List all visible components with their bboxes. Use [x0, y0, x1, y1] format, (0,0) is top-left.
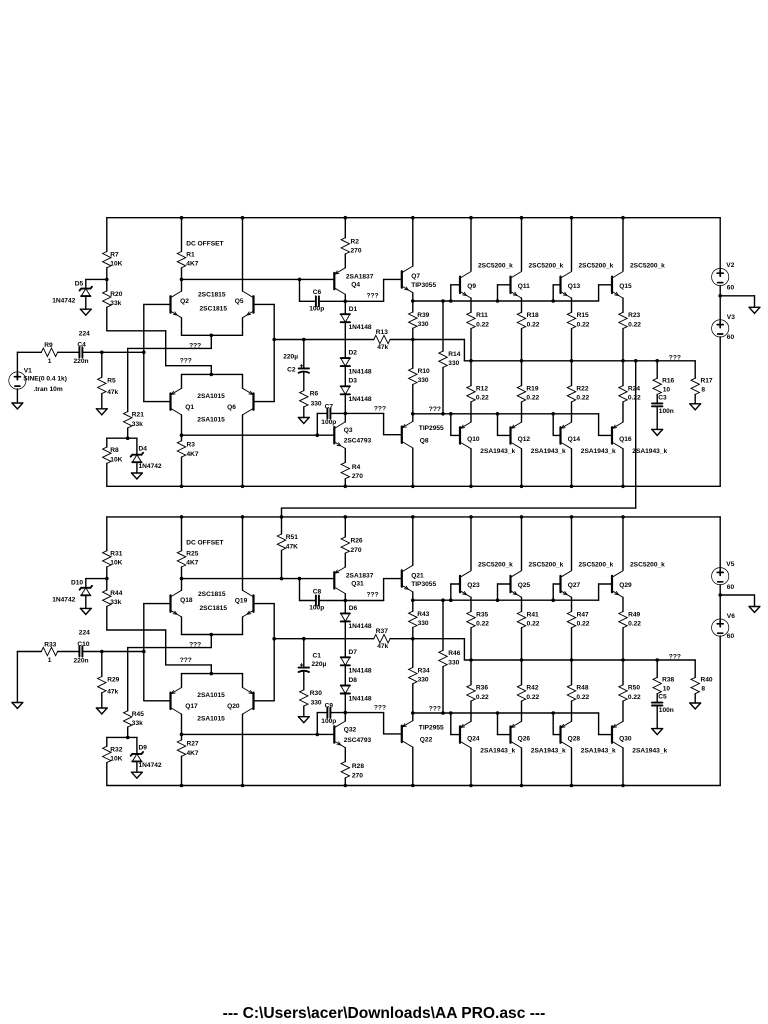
svg-text:D10: D10	[71, 580, 83, 587]
svg-text:2SC5200_k: 2SC5200_k	[478, 263, 513, 270]
svg-text:Q16: Q16	[619, 436, 632, 443]
svg-text:60: 60	[727, 285, 735, 292]
svg-text:2SA1943_k: 2SA1943_k	[632, 747, 667, 754]
svg-text:R9: R9	[44, 342, 53, 349]
svg-text:0.22: 0.22	[576, 694, 589, 701]
svg-text:D8: D8	[349, 677, 358, 684]
svg-text:100p: 100p	[321, 419, 336, 426]
svg-text:R38: R38	[662, 677, 674, 684]
svg-text:C10: C10	[77, 641, 89, 648]
svg-text:2SC5200_k: 2SC5200_k	[478, 562, 513, 569]
svg-text:2SC5200_k: 2SC5200_k	[579, 562, 614, 569]
svg-text:2SC1815: 2SC1815	[200, 306, 228, 313]
svg-text:2SA1943_k: 2SA1943_k	[581, 448, 616, 455]
svg-text:V5: V5	[726, 561, 734, 568]
svg-text:V3: V3	[727, 314, 735, 321]
svg-text:C4: C4	[77, 342, 86, 349]
svg-text:270: 270	[352, 772, 363, 779]
svg-text:Q26: Q26	[518, 735, 531, 742]
svg-text:C3: C3	[658, 394, 667, 401]
svg-text:SINE(0 0.4 1k): SINE(0 0.4 1k)	[23, 376, 67, 383]
svg-text:0.22: 0.22	[628, 321, 641, 328]
svg-text:330: 330	[448, 659, 459, 666]
svg-text:Q2: Q2	[180, 298, 189, 305]
svg-text:R29: R29	[107, 677, 119, 684]
svg-text:R32: R32	[110, 746, 122, 753]
svg-text:V6: V6	[727, 613, 735, 620]
svg-text:???: ???	[180, 358, 192, 365]
svg-text:TIP2955: TIP2955	[419, 724, 444, 731]
svg-text:4K7: 4K7	[186, 261, 198, 268]
svg-text:0.22: 0.22	[476, 694, 489, 701]
svg-text:R2: R2	[351, 239, 360, 246]
svg-text:Q4: Q4	[351, 281, 360, 288]
svg-text:2SC5200_k: 2SC5200_k	[579, 263, 614, 270]
svg-text:2SA1943_k: 2SA1943_k	[480, 747, 515, 754]
svg-text:R24: R24	[628, 385, 640, 392]
svg-text:???: ???	[669, 354, 681, 361]
svg-text:2SC5200_k: 2SC5200_k	[529, 562, 564, 569]
svg-text:0.22: 0.22	[577, 621, 590, 628]
svg-text:220n: 220n	[74, 657, 89, 664]
svg-text:220µ: 220µ	[283, 354, 298, 361]
svg-text:1N4742: 1N4742	[139, 463, 162, 470]
svg-text:Q9: Q9	[467, 283, 476, 290]
svg-text:Q29: Q29	[619, 582, 632, 589]
svg-text:???: ???	[367, 293, 379, 300]
svg-text:D2: D2	[349, 350, 358, 357]
svg-text:R7: R7	[110, 252, 119, 259]
svg-text:R12: R12	[476, 385, 488, 392]
svg-text:D7: D7	[349, 649, 358, 656]
svg-text:R19: R19	[526, 385, 538, 392]
svg-text:--- C:\Users\acer\Downloads\A: --- C:\Users\acer\Downloads\AA PRO.asc -…	[223, 1005, 546, 1022]
svg-text:33k: 33k	[110, 599, 121, 606]
svg-text:1N4742: 1N4742	[139, 762, 162, 769]
svg-text:2SA1015: 2SA1015	[197, 416, 225, 423]
svg-text:R14: R14	[448, 351, 460, 358]
svg-text:D5: D5	[75, 280, 84, 287]
svg-text:220µ: 220µ	[312, 661, 327, 668]
svg-text:???: ???	[374, 705, 386, 712]
svg-text:R13: R13	[376, 329, 388, 336]
svg-text:270: 270	[351, 248, 362, 255]
svg-text:330: 330	[311, 401, 322, 408]
svg-text:0.22: 0.22	[527, 621, 540, 628]
svg-text:Q17: Q17	[185, 703, 198, 710]
svg-text:R4: R4	[352, 464, 361, 471]
svg-text:Q23: Q23	[467, 582, 480, 589]
svg-text:Q12: Q12	[518, 436, 531, 443]
svg-text:R1: R1	[186, 252, 195, 259]
svg-text:270: 270	[352, 473, 363, 480]
svg-text:C5: C5	[658, 694, 667, 701]
svg-text:10K: 10K	[110, 456, 122, 463]
svg-text:100p: 100p	[309, 306, 324, 313]
svg-text:0.22: 0.22	[476, 395, 489, 402]
svg-text:0.22: 0.22	[628, 395, 641, 402]
svg-text:R50: R50	[628, 685, 640, 692]
svg-text:2SA1837: 2SA1837	[346, 273, 374, 280]
svg-text:224: 224	[79, 331, 90, 338]
svg-text:330: 330	[418, 676, 429, 683]
svg-text:DC OFFSET: DC OFFSET	[186, 241, 223, 248]
svg-text:2SA1015: 2SA1015	[197, 716, 225, 723]
svg-text:2SA1943_k: 2SA1943_k	[480, 448, 515, 455]
svg-text:33k: 33k	[110, 300, 121, 307]
svg-text:100n: 100n	[659, 707, 674, 714]
svg-text:47k: 47k	[377, 643, 388, 650]
svg-text:330: 330	[418, 620, 429, 627]
svg-text:C9: C9	[325, 703, 334, 710]
svg-text:330: 330	[311, 700, 322, 707]
svg-text:100p: 100p	[309, 605, 324, 612]
svg-text:33k: 33k	[132, 421, 143, 428]
svg-text:C1: C1	[313, 653, 322, 660]
svg-text:330: 330	[418, 377, 429, 384]
svg-text:47k: 47k	[377, 344, 388, 351]
svg-text:1N4742: 1N4742	[52, 597, 75, 604]
svg-text:Q32: Q32	[344, 726, 357, 733]
svg-text:33k: 33k	[132, 720, 143, 727]
svg-text:1N4148: 1N4148	[349, 396, 372, 403]
svg-text:Q14: Q14	[568, 436, 581, 443]
svg-text:Q27: Q27	[568, 582, 581, 589]
svg-text:Q18: Q18	[180, 597, 193, 604]
svg-text:R26: R26	[351, 538, 363, 545]
svg-text:1: 1	[48, 657, 52, 664]
svg-text:R40: R40	[701, 677, 713, 684]
svg-text:Q19: Q19	[235, 597, 248, 604]
svg-text:0.22: 0.22	[527, 321, 540, 328]
svg-text:R42: R42	[526, 685, 538, 692]
svg-text:270: 270	[351, 547, 362, 554]
svg-text:Q31: Q31	[351, 581, 364, 588]
svg-text:R41: R41	[527, 611, 539, 618]
svg-text:R35: R35	[476, 611, 488, 618]
svg-text:Q11: Q11	[518, 283, 530, 290]
svg-text:Q8: Q8	[420, 437, 429, 444]
svg-text:R37: R37	[376, 628, 388, 635]
svg-text:R10: R10	[418, 368, 430, 375]
svg-text:R27: R27	[187, 741, 199, 748]
svg-text:Q24: Q24	[467, 735, 480, 742]
svg-text:0.22: 0.22	[476, 321, 489, 328]
svg-text:???: ???	[367, 592, 379, 599]
svg-text:8: 8	[701, 387, 705, 394]
svg-text:1N4148: 1N4148	[349, 324, 372, 331]
svg-text:2SA1943_k: 2SA1943_k	[632, 448, 667, 455]
svg-text:R43: R43	[417, 611, 429, 618]
svg-text:???: ???	[669, 654, 681, 661]
svg-text:???: ???	[429, 705, 441, 712]
svg-text:2SA1943_k: 2SA1943_k	[581, 747, 616, 754]
svg-text:0.22: 0.22	[526, 694, 539, 701]
svg-text:R11: R11	[476, 312, 488, 319]
svg-text:10: 10	[663, 686, 671, 693]
svg-text:1: 1	[48, 358, 52, 365]
svg-text:D3: D3	[349, 378, 358, 385]
svg-text:R16: R16	[662, 377, 674, 384]
svg-text:Q10: Q10	[467, 436, 480, 443]
svg-text:R34: R34	[418, 667, 430, 674]
svg-text:R44: R44	[110, 590, 122, 597]
svg-text:Q3: Q3	[344, 427, 353, 434]
svg-text:330: 330	[448, 360, 459, 367]
svg-text:D6: D6	[349, 605, 358, 612]
svg-text:2SC4793: 2SC4793	[344, 438, 372, 445]
svg-text:0.22: 0.22	[628, 694, 641, 701]
svg-text:0.22: 0.22	[526, 395, 539, 402]
svg-text:R31: R31	[110, 551, 122, 558]
svg-text:R39: R39	[417, 312, 429, 319]
svg-text:Q22: Q22	[420, 737, 433, 744]
svg-text:C2: C2	[287, 366, 296, 373]
svg-text:4K7: 4K7	[186, 560, 198, 567]
svg-text:10K: 10K	[110, 261, 122, 268]
svg-text:R30: R30	[310, 690, 322, 697]
svg-text:47k: 47k	[107, 688, 118, 695]
svg-text:Q13: Q13	[568, 283, 581, 290]
svg-text:Q15: Q15	[619, 283, 632, 290]
svg-text:TIP3055: TIP3055	[411, 581, 436, 588]
svg-text:Q30: Q30	[619, 735, 632, 742]
svg-text:R47: R47	[577, 611, 589, 618]
svg-text:DC OFFSET: DC OFFSET	[186, 540, 223, 547]
svg-text:C8: C8	[313, 588, 322, 595]
svg-text:47k: 47k	[107, 389, 118, 396]
svg-text:Q21: Q21	[411, 572, 424, 579]
svg-text:R15: R15	[577, 312, 589, 319]
svg-text:Q5: Q5	[235, 298, 244, 305]
svg-text:D1: D1	[349, 306, 358, 313]
svg-text:Q20: Q20	[227, 703, 240, 710]
svg-text:R48: R48	[576, 685, 588, 692]
svg-text:R36: R36	[476, 685, 488, 692]
svg-text:???: ???	[189, 342, 201, 349]
svg-text:10: 10	[663, 387, 671, 394]
svg-text:2SA1015: 2SA1015	[197, 393, 225, 400]
svg-text:???: ???	[429, 406, 441, 413]
svg-text:R22: R22	[576, 385, 588, 392]
svg-text:60: 60	[727, 633, 735, 640]
svg-text:Q7: Q7	[411, 273, 420, 280]
svg-text:100n: 100n	[659, 408, 674, 415]
svg-text:Q6: Q6	[227, 404, 236, 411]
svg-text:1N4742: 1N4742	[52, 297, 75, 304]
svg-text:0.22: 0.22	[576, 395, 589, 402]
svg-text:2SA1837: 2SA1837	[346, 573, 374, 580]
svg-text:8: 8	[701, 686, 705, 693]
svg-text:47K: 47K	[286, 543, 298, 550]
svg-text:???: ???	[189, 642, 201, 649]
svg-text:R21: R21	[132, 412, 144, 419]
svg-text:4K7: 4K7	[187, 750, 199, 757]
svg-text:R33: R33	[44, 641, 56, 648]
svg-text:R20: R20	[110, 291, 122, 298]
svg-text:C6: C6	[313, 289, 322, 296]
svg-text:1N4148: 1N4148	[349, 695, 372, 702]
svg-text:330: 330	[418, 321, 429, 328]
svg-text:4K7: 4K7	[187, 451, 199, 458]
svg-text:Q25: Q25	[518, 582, 531, 589]
svg-text:2SC5200_k: 2SC5200_k	[630, 562, 665, 569]
svg-text:10K: 10K	[110, 756, 122, 763]
svg-text:R51: R51	[286, 534, 298, 541]
svg-text:2SA1943_k: 2SA1943_k	[531, 747, 566, 754]
svg-text:V2: V2	[726, 262, 734, 269]
svg-text:2SC5200_k: 2SC5200_k	[630, 263, 665, 270]
svg-text:R25: R25	[186, 551, 198, 558]
svg-text:D9: D9	[139, 745, 148, 752]
svg-text:TIP3055: TIP3055	[411, 282, 436, 289]
svg-text:0.22: 0.22	[476, 621, 489, 628]
svg-text:60: 60	[727, 334, 735, 341]
svg-text:2SC1815: 2SC1815	[198, 292, 226, 299]
svg-text:???: ???	[180, 657, 192, 664]
svg-text:R3: R3	[187, 441, 196, 448]
svg-text:R18: R18	[527, 312, 539, 319]
svg-text:Q28: Q28	[568, 735, 581, 742]
svg-text:1N4148: 1N4148	[349, 623, 372, 630]
svg-text:1N4148: 1N4148	[349, 668, 372, 675]
svg-text:R8: R8	[110, 447, 119, 454]
svg-text:R6: R6	[310, 391, 319, 398]
svg-text:R28: R28	[352, 763, 364, 770]
svg-text:R17: R17	[701, 377, 713, 384]
svg-text:R45: R45	[132, 711, 144, 718]
svg-text:D4: D4	[139, 445, 148, 452]
svg-text:V1: V1	[24, 368, 32, 375]
svg-text:10K: 10K	[110, 560, 122, 567]
svg-text:R49: R49	[628, 611, 640, 618]
svg-text:R46: R46	[448, 650, 460, 657]
svg-text:C7: C7	[325, 404, 334, 411]
svg-text:2SC1815: 2SC1815	[198, 591, 226, 598]
svg-text:224: 224	[79, 630, 90, 637]
svg-text:100p: 100p	[321, 718, 336, 725]
svg-text:2SC1815: 2SC1815	[200, 605, 228, 612]
svg-text:TIP2955: TIP2955	[419, 425, 444, 432]
svg-text:220n: 220n	[74, 358, 89, 365]
svg-text:.tran 10m: .tran 10m	[33, 386, 62, 393]
svg-text:2SA1943_k: 2SA1943_k	[531, 448, 566, 455]
svg-text:2SC4793: 2SC4793	[344, 737, 372, 744]
svg-text:1N4148: 1N4148	[349, 368, 372, 375]
svg-text:2SC5200_k: 2SC5200_k	[529, 263, 564, 270]
svg-text:60: 60	[727, 584, 735, 591]
svg-text:???: ???	[374, 405, 386, 412]
svg-text:R23: R23	[628, 312, 640, 319]
svg-text:0.22: 0.22	[577, 321, 590, 328]
svg-text:Q1: Q1	[185, 404, 194, 411]
svg-text:0.22: 0.22	[628, 621, 641, 628]
svg-text:R5: R5	[107, 378, 116, 385]
svg-text:2SA1015: 2SA1015	[197, 692, 225, 699]
